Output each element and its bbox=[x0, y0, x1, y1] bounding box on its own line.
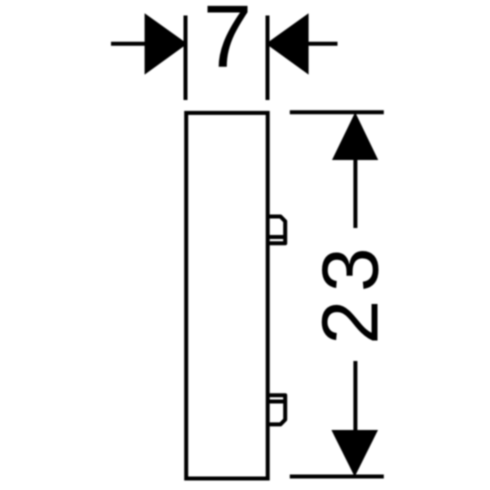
svg-text:7: 7 bbox=[203, 0, 252, 85]
clip tab lower inner line bbox=[268, 400, 286, 404]
width dimension right tail bbox=[308, 42, 338, 46]
height dimension line lower segment bbox=[353, 361, 357, 432]
extension line left (width dim) bbox=[184, 16, 188, 101]
extension line top (height dim) bbox=[290, 110, 384, 114]
extension line bottom (height dim) bbox=[290, 475, 384, 479]
clip tab upper bbox=[268, 217, 286, 244]
clip tab upper inner line bbox=[268, 235, 286, 239]
width dimension right arrowhead bbox=[266, 13, 309, 74]
panel outline (side view rectangle) bbox=[186, 113, 268, 479]
svg-text:23: 23 bbox=[306, 240, 395, 345]
extension line right (width dim) bbox=[266, 16, 270, 101]
height dimension down arrowhead bbox=[331, 430, 378, 477]
height dimension line upper segment bbox=[353, 158, 357, 228]
clip tab lower bbox=[268, 395, 286, 424]
width dimension left tail bbox=[111, 42, 146, 46]
width dimension left arrowhead bbox=[145, 13, 188, 74]
height dimension up arrowhead bbox=[332, 112, 378, 160]
